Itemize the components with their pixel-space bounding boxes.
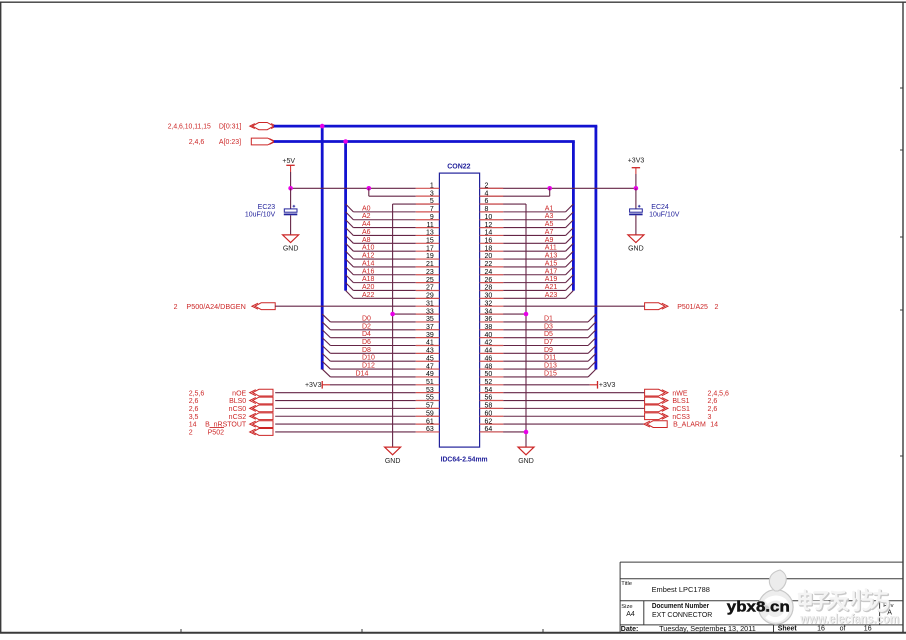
off-page connector P502 — [250, 429, 273, 436]
pin 51 stub — [416, 384, 440, 386]
pin 38 stub — [480, 329, 504, 331]
power +3V3 — [628, 158, 645, 175]
pin 43 stub — [416, 352, 440, 354]
power +3V3 (pin 51) — [305, 381, 330, 389]
pin 12 stub — [480, 227, 504, 229]
svg-text:2,6: 2,6 — [189, 398, 199, 405]
svg-text:A2: A2 — [362, 213, 371, 220]
junction GND pin 34 — [524, 312, 529, 317]
svg-text:nOE: nOE — [232, 390, 246, 397]
pin 59 stub — [416, 415, 440, 417]
svg-text:GND: GND — [628, 246, 644, 253]
net A9 bus entry — [566, 235, 574, 243]
svg-text:41: 41 — [426, 340, 434, 347]
pin 58 stub — [480, 407, 504, 409]
svg-text:58: 58 — [485, 403, 493, 410]
ground (right) — [518, 447, 534, 465]
title block — [620, 562, 903, 633]
wire net A1 — [503, 211, 565, 213]
svg-text:2: 2 — [485, 183, 489, 190]
wire net D8 — [330, 352, 415, 354]
pin 18 stub — [480, 250, 504, 252]
svg-text:P502: P502 — [208, 430, 224, 437]
svg-text:27: 27 — [426, 285, 434, 292]
svg-text:D12: D12 — [362, 363, 375, 370]
pin 20 stub — [480, 258, 504, 260]
svg-text:EC23: EC23 — [258, 204, 276, 211]
svg-text:36: 36 — [485, 316, 493, 323]
pin 53 stub — [416, 392, 440, 394]
wire net A12 — [353, 258, 415, 260]
pin 33 stub — [416, 313, 440, 315]
svg-text:A15: A15 — [545, 260, 558, 267]
net D1 bus entry — [588, 314, 596, 322]
net D3 bus entry — [588, 322, 596, 330]
off-page connector nCS3 — [645, 413, 668, 420]
pin 24 stub — [480, 274, 504, 276]
svg-text:10: 10 — [485, 214, 493, 221]
wire EC24 to GND — [635, 215, 637, 235]
pin 1 stub — [416, 187, 440, 189]
svg-text:Embest LPC1788: Embest LPC1788 — [652, 587, 710, 594]
wire pin 64 (GND) — [480, 431, 526, 433]
svg-text:40: 40 — [485, 332, 493, 339]
pin 30 stub — [480, 297, 504, 299]
svg-text:23: 23 — [426, 269, 434, 276]
svg-text:9: 9 — [430, 214, 434, 221]
svg-text:D10: D10 — [362, 355, 375, 362]
net D13 bus entry — [588, 361, 596, 369]
wire net D6 — [330, 345, 415, 347]
svg-text:45: 45 — [426, 355, 434, 362]
wire net nOE — [275, 392, 416, 394]
svg-text:2: 2 — [715, 304, 719, 311]
off-page connector nCS2 — [250, 413, 273, 420]
svg-text:Tuesday, September 13, 2011: Tuesday, September 13, 2011 — [659, 626, 756, 633]
svg-text:A1: A1 — [545, 205, 554, 212]
junction +5V / EC23 — [288, 186, 293, 191]
svg-text:2,4,6: 2,4,6 — [189, 139, 205, 146]
wire pin 6 (GND) — [480, 203, 526, 205]
junction A bus — [343, 139, 348, 144]
node A[0:23] off-page connector — [251, 138, 275, 145]
net A22 bus entry — [346, 290, 354, 298]
net A23 bus entry — [566, 290, 574, 298]
svg-text:42: 42 — [485, 340, 493, 347]
svg-text:Sheet: Sheet — [778, 626, 798, 633]
wire net A5 — [503, 227, 565, 229]
capacitor EC23 10uF/10V — [245, 204, 297, 219]
svg-text:D14: D14 — [356, 370, 369, 377]
pin 23 stub — [416, 274, 440, 276]
svg-text:2,6: 2,6 — [189, 406, 199, 413]
capacitor EC24 10uF/10V — [629, 204, 680, 219]
svg-text:14: 14 — [710, 422, 718, 429]
pin 25 stub — [416, 282, 440, 284]
pin 37 stub — [416, 329, 440, 331]
svg-text:A16: A16 — [362, 268, 375, 275]
svg-text:A4: A4 — [362, 221, 371, 228]
svg-text:nCS3: nCS3 — [672, 414, 690, 421]
svg-text:D11: D11 — [544, 355, 556, 362]
net D4 bus entry — [322, 330, 330, 338]
svg-text:21: 21 — [426, 261, 434, 268]
connector CON22 body — [439, 173, 479, 447]
wire EC23 to GND — [290, 215, 292, 235]
svg-text:50: 50 — [485, 371, 493, 378]
svg-text:D13: D13 — [544, 363, 557, 370]
svg-text:60: 60 — [485, 410, 493, 417]
pin 35 stub — [416, 321, 440, 323]
svg-text:16: 16 — [485, 238, 493, 245]
pin 16 stub — [480, 242, 504, 244]
svg-text:47: 47 — [426, 363, 434, 370]
svg-text:A13: A13 — [545, 253, 558, 260]
svg-text:37: 37 — [426, 324, 434, 331]
svg-text:EXT CONNECTOR: EXT CONNECTOR — [652, 612, 712, 619]
title block texts — [621, 581, 894, 633]
svg-text:+5V: +5V — [282, 158, 295, 165]
pin 11 stub — [416, 227, 440, 229]
wire pin 34 (GND) — [480, 313, 526, 315]
svg-text:2,5,6: 2,5,6 — [189, 390, 205, 397]
svg-text:A6: A6 — [362, 229, 371, 236]
pin 6 stub — [480, 203, 504, 205]
svg-text:25: 25 — [426, 277, 434, 284]
wire net A21 — [503, 289, 565, 291]
svg-text:nCS1: nCS1 — [672, 406, 690, 413]
svg-text:7: 7 — [430, 206, 434, 213]
wire net nCS1 — [503, 407, 644, 409]
wire net D10 — [330, 360, 415, 362]
bus A vertical right — [572, 142, 575, 291]
wire net A18 — [353, 282, 415, 284]
svg-text:nCS0: nCS0 — [229, 406, 247, 413]
svg-text:D15: D15 — [544, 370, 557, 377]
svg-text:32: 32 — [485, 300, 493, 307]
svg-text:+3V3: +3V3 — [628, 158, 645, 165]
off-page connector BLS0 — [250, 397, 273, 404]
wire net D13 — [503, 368, 588, 370]
pin 22 stub — [480, 266, 504, 268]
svg-text:38: 38 — [485, 324, 493, 331]
svg-text:63: 63 — [426, 426, 434, 433]
wire net A8 — [353, 242, 415, 244]
net D2 bus entry — [322, 322, 330, 330]
wire net D7 — [503, 345, 588, 347]
svg-text:51: 51 — [426, 379, 434, 386]
svg-text:www.elecfans.com: www.elecfans.com — [799, 612, 899, 626]
pin 28 stub — [480, 289, 504, 291]
pin 34 stub — [480, 313, 504, 315]
pin 31 stub — [416, 305, 440, 307]
svg-text:A23: A23 — [545, 292, 558, 299]
wire net A0 — [353, 211, 415, 213]
svg-text:35: 35 — [426, 316, 434, 323]
wire drop to pin 4 — [549, 188, 551, 196]
junction GND pin 33 — [390, 312, 395, 317]
wire net A6 — [353, 234, 415, 236]
svg-text:P501/A25: P501/A25 — [677, 304, 708, 311]
wire GND vertical right — [525, 204, 527, 447]
wire net A4 — [353, 227, 415, 229]
svg-text:EC24: EC24 — [651, 204, 669, 211]
svg-text:52: 52 — [485, 379, 493, 386]
wire +3V3 to pin 51 — [330, 384, 416, 386]
watermark chinese characters (stylized grey) — [799, 590, 889, 612]
net A14 bus entry — [346, 259, 354, 267]
wire net nCS2 — [275, 415, 416, 417]
svg-text:D3: D3 — [544, 323, 553, 330]
net A4 bus entry — [346, 220, 354, 228]
wire net D12 — [330, 368, 415, 370]
svg-text:54: 54 — [485, 387, 493, 394]
net A6 bus entry — [346, 228, 354, 236]
svg-text:P500/A24/DBGEN: P500/A24/DBGEN — [186, 304, 245, 311]
svg-text:14: 14 — [485, 230, 493, 237]
svg-text:A20: A20 — [362, 284, 375, 291]
off-page connector nCS1 — [645, 405, 668, 412]
svg-text:A12: A12 — [362, 253, 375, 260]
svg-text:A11: A11 — [545, 245, 557, 252]
net D6 bus entry — [322, 338, 330, 346]
net D5 bus entry — [588, 330, 596, 338]
svg-text:Title: Title — [621, 581, 632, 587]
wire net nCS0 — [275, 407, 416, 409]
svg-text:44: 44 — [485, 348, 493, 355]
pin 19 stub — [416, 258, 440, 260]
svg-text:16: 16 — [864, 626, 872, 633]
net A10 bus entry — [346, 243, 354, 251]
svg-text:A3: A3 — [545, 213, 554, 220]
wire net P500/A24/DBGEN — [275, 305, 416, 307]
svg-text:B_ALARM: B_ALARM — [673, 422, 706, 429]
svg-text:49: 49 — [426, 371, 434, 378]
wire net D15 — [503, 376, 588, 378]
wire net A23 — [503, 297, 565, 299]
wire net nCS3 — [503, 415, 644, 417]
svg-text:A[0:23]: A[0:23] — [219, 139, 241, 146]
wire pin 2 rail — [480, 187, 636, 189]
wire drop to pin 3 — [368, 188, 370, 196]
bus A vertical left — [344, 142, 347, 291]
svg-text:3: 3 — [430, 190, 434, 197]
pin 21 stub — [416, 266, 440, 268]
svg-text:10uF/10V: 10uF/10V — [649, 212, 680, 219]
pin 52 stub — [480, 384, 504, 386]
svg-text:33: 33 — [426, 308, 434, 315]
svg-text:A17: A17 — [545, 268, 558, 275]
wire +3V3 to pin2 rail — [635, 174, 637, 188]
pin 44 stub — [480, 352, 504, 354]
svg-text:6: 6 — [485, 198, 489, 205]
wire pin 1 rail — [291, 187, 416, 189]
ground (EC23) — [283, 235, 299, 253]
wire net D14 — [330, 376, 415, 378]
bus A[0:23] horizontal — [274, 140, 575, 143]
net A0 bus entry — [346, 204, 354, 212]
net A7 bus entry — [566, 228, 574, 236]
wire net A22 — [353, 297, 415, 299]
svg-text:2: 2 — [174, 304, 178, 311]
bus D vertical left — [321, 126, 324, 369]
pin 13 stub — [416, 234, 440, 236]
svg-text:28: 28 — [485, 285, 493, 292]
pin 45 stub — [416, 360, 440, 362]
svg-text:24: 24 — [485, 269, 493, 276]
svg-text:64: 64 — [485, 426, 493, 433]
net A18 bus entry — [346, 275, 354, 283]
net D7 bus entry — [588, 338, 596, 346]
pin 2 stub — [480, 187, 504, 189]
svg-text:D7: D7 — [544, 339, 553, 346]
net D15 bus entry — [588, 369, 596, 377]
net A20 bus entry — [346, 283, 354, 291]
pin 26 stub — [480, 282, 504, 284]
net A15 bus entry — [566, 259, 574, 267]
wire net nWE — [503, 392, 644, 394]
pin 42 stub — [480, 345, 504, 347]
svg-text:59: 59 — [426, 410, 434, 417]
svg-text:3: 3 — [708, 414, 712, 421]
wire net D4 — [330, 337, 415, 339]
wire GND vertical left — [392, 204, 394, 447]
svg-text:19: 19 — [426, 253, 434, 260]
svg-text:A14: A14 — [362, 260, 375, 267]
wire net D0 — [330, 321, 415, 323]
pin 60 stub — [480, 415, 504, 417]
ground (EC24) — [628, 235, 644, 253]
bus D[0:31] horizontal — [274, 125, 598, 128]
svg-text:11: 11 — [427, 222, 434, 229]
pin 27 stub — [416, 289, 440, 291]
svg-text:nWE: nWE — [672, 390, 688, 397]
wire net A15 — [503, 266, 565, 268]
net A5 bus entry — [566, 220, 574, 228]
net A19 bus entry — [566, 275, 574, 283]
wire net A17 — [503, 274, 565, 276]
svg-text:39: 39 — [426, 332, 434, 339]
svg-text:8: 8 — [485, 206, 489, 213]
net D9 bus entry — [588, 346, 596, 354]
overbar P502 — [210, 427, 225, 429]
net D0 bus entry — [322, 314, 330, 322]
pin 50 stub — [480, 376, 504, 378]
junction +3V3 / EC24 — [634, 186, 639, 191]
svg-text:+3V3: +3V3 — [305, 382, 322, 389]
svg-text:D4: D4 — [362, 331, 371, 338]
wire net A20 — [353, 289, 415, 291]
junction pin2/pin4 drop — [547, 186, 552, 191]
svg-text:CON22: CON22 — [447, 163, 470, 170]
svg-text:D1: D1 — [544, 315, 553, 322]
svg-text:5: 5 — [430, 198, 434, 205]
svg-text:43: 43 — [426, 348, 434, 355]
net A3 bus entry — [566, 212, 574, 220]
watermark logo elecfans mouse — [759, 570, 794, 624]
pin 48 stub — [480, 368, 504, 370]
svg-text:IDC64-2.54mm: IDC64-2.54mm — [441, 456, 488, 463]
svg-text:GND: GND — [518, 458, 534, 465]
pin 61 stub — [416, 423, 440, 425]
off-page connector B_ALARM — [644, 421, 667, 428]
wire net A7 — [503, 234, 565, 236]
svg-text:of: of — [840, 626, 846, 633]
wire net D3 — [503, 329, 588, 331]
wire net A3 — [503, 219, 565, 221]
svg-text:55: 55 — [426, 395, 434, 402]
svg-text:2: 2 — [189, 430, 193, 437]
svg-text:15: 15 — [426, 238, 434, 245]
svg-text:3,5: 3,5 — [189, 414, 199, 421]
svg-text:A18: A18 — [362, 276, 375, 283]
wire net D5 — [503, 337, 588, 339]
wire net D11 — [503, 360, 588, 362]
wire net A10 — [353, 250, 415, 252]
wire +3V3 to pin 52 — [503, 384, 590, 386]
pin 14 stub — [480, 234, 504, 236]
pin 39 stub — [416, 337, 440, 339]
svg-text:A19: A19 — [545, 276, 558, 283]
net A13 bus entry — [566, 251, 574, 259]
pin 55 stub — [416, 400, 440, 402]
wire +5V rail to EC23 — [290, 188, 292, 209]
pin 54 stub — [480, 392, 504, 394]
svg-text:2,4,5,6: 2,4,5,6 — [708, 390, 730, 397]
bus D vertical right — [595, 126, 598, 369]
svg-text:16: 16 — [817, 626, 825, 633]
svg-text:D2: D2 — [362, 323, 371, 330]
svg-text:A22: A22 — [362, 292, 375, 299]
svg-text:A5: A5 — [545, 221, 554, 228]
svg-text:D6: D6 — [362, 339, 371, 346]
junction GND pin 64 — [524, 430, 529, 435]
svg-text:+3V3: +3V3 — [599, 382, 616, 389]
off-page connector B_nRSTOUT — [250, 421, 273, 428]
off-page connector P501/A25 — [645, 303, 668, 310]
svg-text:53: 53 — [426, 387, 434, 394]
off-page connector P500/A24/DBGEN — [252, 303, 275, 310]
svg-text:14: 14 — [189, 422, 197, 429]
svg-text:12: 12 — [485, 222, 493, 229]
svg-text:A4: A4 — [626, 611, 635, 618]
svg-text:A21: A21 — [545, 284, 558, 291]
pin 47 stub — [416, 368, 440, 370]
svg-text:GND: GND — [385, 458, 401, 465]
svg-text:34: 34 — [485, 308, 493, 315]
off-page connector BLS1 — [645, 397, 668, 404]
svg-text:57: 57 — [426, 403, 434, 410]
svg-text:Document Number: Document Number — [652, 603, 709, 610]
svg-text:Date:: Date: — [621, 626, 639, 633]
svg-text:BLS1: BLS1 — [672, 398, 689, 405]
svg-text:D5: D5 — [544, 331, 553, 338]
svg-text:62: 62 — [485, 418, 493, 425]
svg-text:46: 46 — [485, 355, 493, 362]
wire net A16 — [353, 274, 415, 276]
wire pin 5 (GND) — [393, 203, 440, 205]
svg-text:30: 30 — [485, 293, 493, 300]
wire net D2 — [330, 329, 415, 331]
wire net A14 — [353, 266, 415, 268]
wire +5V to pin1 rail — [290, 172, 292, 188]
net D14 bus entry — [322, 369, 330, 377]
junction D bus — [320, 124, 325, 129]
svg-text:A10: A10 — [362, 245, 375, 252]
junction pin1/pin3 drop — [367, 186, 372, 191]
wire net A2 — [353, 219, 415, 221]
pin 29 stub — [416, 297, 440, 299]
